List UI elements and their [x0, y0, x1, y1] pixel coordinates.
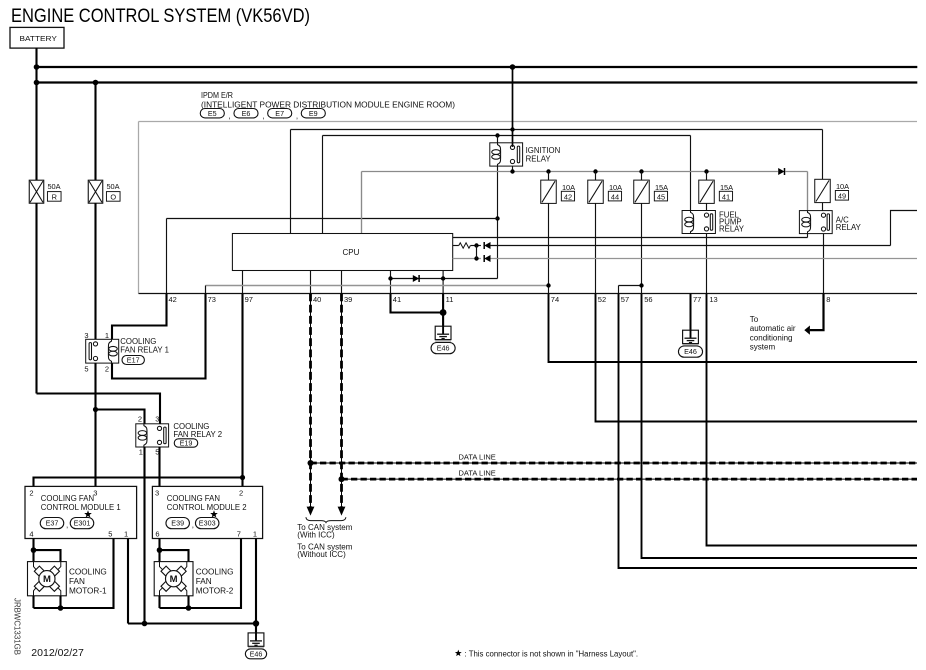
svg-text:74: 74: [551, 295, 559, 304]
svg-text:COOLING: COOLING: [69, 568, 107, 577]
svg-text:BATTERY: BATTERY: [20, 34, 57, 43]
svg-text:41: 41: [393, 295, 401, 304]
svg-text:E9: E9: [309, 109, 318, 118]
svg-text:10A: 10A: [562, 183, 575, 192]
svg-text:57: 57: [621, 295, 629, 304]
svg-text:E301: E301: [74, 519, 91, 528]
svg-text:3: 3: [93, 488, 97, 497]
svg-text:1: 1: [253, 529, 257, 538]
svg-text:M: M: [170, 574, 178, 585]
svg-text:M: M: [43, 574, 51, 585]
svg-text:RELAY: RELAY: [719, 225, 745, 234]
svg-text:13: 13: [709, 295, 717, 304]
svg-text:,: ,: [192, 521, 194, 530]
svg-text:E19: E19: [180, 439, 193, 448]
svg-text:(With ICC): (With ICC): [297, 530, 335, 539]
svg-text:2: 2: [105, 365, 109, 374]
svg-text:CONTROL MODULE 1: CONTROL MODULE 1: [41, 503, 121, 512]
svg-text:(Without ICC): (Without ICC): [297, 550, 346, 559]
svg-text:system: system: [750, 343, 776, 352]
svg-text:,: ,: [262, 112, 264, 121]
svg-text:52: 52: [598, 295, 606, 304]
svg-text:7: 7: [237, 529, 241, 538]
svg-text:O: O: [110, 193, 116, 202]
svg-text:45: 45: [657, 192, 665, 201]
svg-text:To: To: [750, 315, 759, 324]
svg-text:: This connector is not shown: : This connector is not shown in "Harnes…: [465, 650, 639, 659]
svg-text:44: 44: [611, 192, 619, 201]
svg-text:49: 49: [838, 192, 846, 201]
svg-text:E46: E46: [684, 347, 697, 356]
svg-text:2: 2: [29, 488, 33, 497]
svg-text:2: 2: [138, 415, 142, 424]
svg-text:COOLING: COOLING: [196, 568, 234, 577]
svg-text:3: 3: [155, 488, 159, 497]
svg-text:MOTOR-2: MOTOR-2: [196, 586, 234, 595]
svg-text:5: 5: [84, 365, 88, 374]
svg-text:DATA LINE: DATA LINE: [459, 468, 496, 477]
svg-text:RELAY: RELAY: [836, 223, 862, 232]
svg-text:73: 73: [208, 295, 216, 304]
svg-text:ENGINE CONTROL SYSTEM (VK56VD): ENGINE CONTROL SYSTEM (VK56VD): [11, 5, 310, 27]
svg-text:11: 11: [446, 295, 454, 304]
svg-text:50A: 50A: [106, 182, 119, 191]
svg-text:IPDM E/R: IPDM E/R: [201, 91, 233, 100]
svg-text:42: 42: [169, 295, 177, 304]
svg-text:E6: E6: [242, 109, 251, 118]
svg-text:E17: E17: [127, 356, 140, 365]
svg-text:42: 42: [564, 192, 572, 201]
svg-text:automatic air: automatic air: [750, 324, 796, 333]
svg-text:8: 8: [826, 295, 830, 304]
svg-text:COOLING FAN: COOLING FAN: [167, 494, 220, 503]
svg-text:DATA LINE: DATA LINE: [459, 452, 496, 461]
svg-text:15A: 15A: [720, 183, 733, 192]
svg-text:77: 77: [693, 295, 701, 304]
svg-text:2012/02/27: 2012/02/27: [31, 647, 84, 659]
svg-text:E7: E7: [275, 109, 284, 118]
svg-text:10A: 10A: [836, 182, 849, 191]
svg-text:E37: E37: [46, 519, 59, 528]
svg-text:2: 2: [239, 488, 243, 497]
svg-text:E39: E39: [171, 519, 184, 528]
svg-text:4: 4: [29, 529, 33, 538]
svg-text:15A: 15A: [655, 183, 668, 192]
svg-text:6: 6: [155, 529, 159, 538]
svg-text:3: 3: [155, 415, 159, 424]
svg-text:,: ,: [296, 112, 298, 121]
svg-text:10A: 10A: [609, 183, 622, 192]
svg-text:5: 5: [108, 529, 112, 538]
svg-text:E46: E46: [437, 344, 450, 353]
svg-text:FAN RELAY 1: FAN RELAY 1: [120, 346, 169, 355]
svg-text:1: 1: [124, 529, 128, 538]
svg-text:conditioning: conditioning: [750, 333, 793, 342]
svg-text:E46: E46: [250, 649, 263, 658]
svg-text:97: 97: [245, 295, 253, 304]
svg-text:40: 40: [313, 295, 321, 304]
svg-text:56: 56: [644, 295, 652, 304]
svg-text:FAN: FAN: [69, 577, 85, 586]
svg-text:50A: 50A: [47, 182, 60, 191]
svg-text:1: 1: [139, 448, 143, 457]
svg-text:39: 39: [344, 295, 352, 304]
svg-text:E303: E303: [199, 519, 216, 528]
svg-text:CPU: CPU: [343, 248, 360, 257]
svg-text:CONTROL MODULE 2: CONTROL MODULE 2: [167, 503, 247, 512]
svg-text:3: 3: [84, 331, 88, 340]
svg-text:MOTOR-1: MOTOR-1: [69, 586, 107, 595]
svg-text:1: 1: [105, 331, 109, 340]
svg-text:,: ,: [229, 112, 231, 121]
svg-text:R: R: [52, 193, 57, 202]
svg-text:41: 41: [722, 192, 730, 201]
svg-text:FAN RELAY 2: FAN RELAY 2: [173, 430, 222, 439]
svg-text:,: ,: [66, 521, 68, 530]
svg-text:COOLING FAN: COOLING FAN: [41, 494, 94, 503]
svg-text:E5: E5: [208, 109, 217, 118]
svg-text:JRBWC1331GB: JRBWC1331GB: [13, 598, 22, 655]
svg-text:FAN: FAN: [196, 577, 212, 586]
svg-text:RELAY: RELAY: [526, 154, 552, 163]
